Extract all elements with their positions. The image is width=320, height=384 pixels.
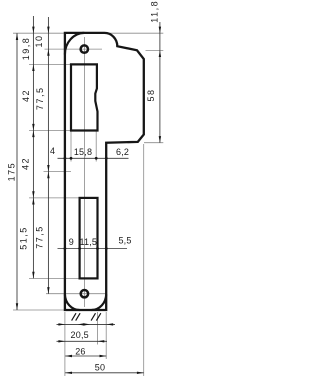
extension line cutout left edge down — [70, 132, 72, 162]
extension line cutout top — [29, 63, 71, 65]
extension line cutout right edge down — [95, 132, 97, 162]
svg-text:4: 4 — [50, 146, 55, 156]
svg-text:15,8: 15,8 — [74, 147, 92, 157]
fold mark pair 1 — [72, 313, 76, 320]
svg-text:20,5: 20,5 — [71, 330, 89, 340]
extension line flange top right — [146, 49, 164, 51]
dim row 9 / 11,5 / 5,5 — [58, 248, 128, 250]
svg-text:19,8: 19,8 — [21, 37, 31, 61]
extension line lower cutout top — [29, 197, 80, 199]
svg-text:11,8: 11,8 — [150, 0, 160, 23]
svg-text:51,5: 51,5 — [18, 226, 28, 250]
dim line 11,8 and 58 right column — [159, 22, 161, 143]
svg-text:9: 9 — [69, 237, 74, 247]
bottom screw hole — [81, 290, 88, 297]
extension line bottom edge left — [13, 309, 64, 311]
svg-text:175: 175 — [7, 162, 17, 182]
extension line top edge right — [110, 32, 163, 34]
upper cutout — [71, 64, 98, 130]
svg-text:42: 42 — [21, 89, 31, 102]
dim row 26 — [65, 355, 106, 357]
extension line lower cutout bottom — [29, 277, 80, 279]
inner corner arc top-left — [65, 33, 84, 55]
svg-text:42: 42 — [20, 157, 30, 170]
dim row fold marks — [57, 323, 116, 325]
inner corner arc bottom-right — [92, 294, 107, 310]
svg-text:6,2: 6,2 — [116, 147, 129, 157]
extension line top edge left — [13, 32, 64, 34]
svg-text:5,5: 5,5 — [118, 236, 131, 246]
centerline horizontal top hole — [45, 48, 103, 50]
extension line below plate left edge — [64, 312, 66, 376]
svg-text:58: 58 — [146, 88, 156, 101]
fold mark pair 2 — [91, 313, 95, 320]
extension line below cutout right edge — [97, 312, 99, 345]
inner corner arc bottom-left — [65, 294, 80, 310]
svg-text:77,5: 77,5 — [35, 225, 45, 249]
svg-text:77,5: 77,5 — [35, 87, 45, 111]
dim row 20,5 — [57, 340, 108, 342]
lower cutout — [80, 198, 98, 279]
centerline horizontal bottom hole — [46, 293, 107, 295]
svg-text:11,5: 11,5 — [79, 237, 97, 247]
centerline vertical through holes — [84, 37, 86, 307]
extension line flange right edge down — [143, 144, 145, 376]
dim chain column B — [47, 17, 49, 294]
top screw hole — [81, 45, 88, 52]
extension line cutout bottom — [29, 130, 71, 132]
dim line 175 — [16, 33, 18, 310]
svg-text:10: 10 — [34, 34, 44, 47]
dim row 50 — [65, 372, 144, 374]
dim row 4 / 15,8 / 6,2 — [58, 157, 129, 159]
dim chain column A — [32, 16, 34, 278]
svg-text:50: 50 — [95, 363, 105, 373]
extension line mid reference — [44, 171, 72, 173]
extension line notch right — [144, 142, 163, 144]
plate outline — [65, 33, 144, 310]
extension line below plate right edge — [105, 312, 107, 359]
svg-text:26: 26 — [75, 346, 85, 356]
